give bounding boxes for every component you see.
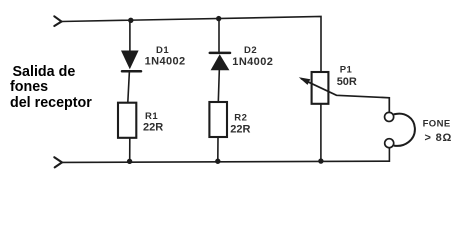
svg-text:R2: R2 [234,113,247,124]
svg-text:R1: R1 [145,111,158,122]
svg-text:> 8Ω: > 8Ω [425,132,453,144]
svg-text:22R: 22R [143,122,163,134]
svg-text:D1: D1 [156,45,169,56]
svg-text:P1: P1 [340,65,353,76]
svg-text:50R: 50R [337,76,357,88]
svg-text:1N4002: 1N4002 [232,56,273,68]
svg-text:FONE: FONE [423,118,451,129]
svg-text:22R: 22R [230,123,250,135]
svg-text:D2: D2 [244,45,257,56]
svg-text:1N4002: 1N4002 [145,56,186,68]
